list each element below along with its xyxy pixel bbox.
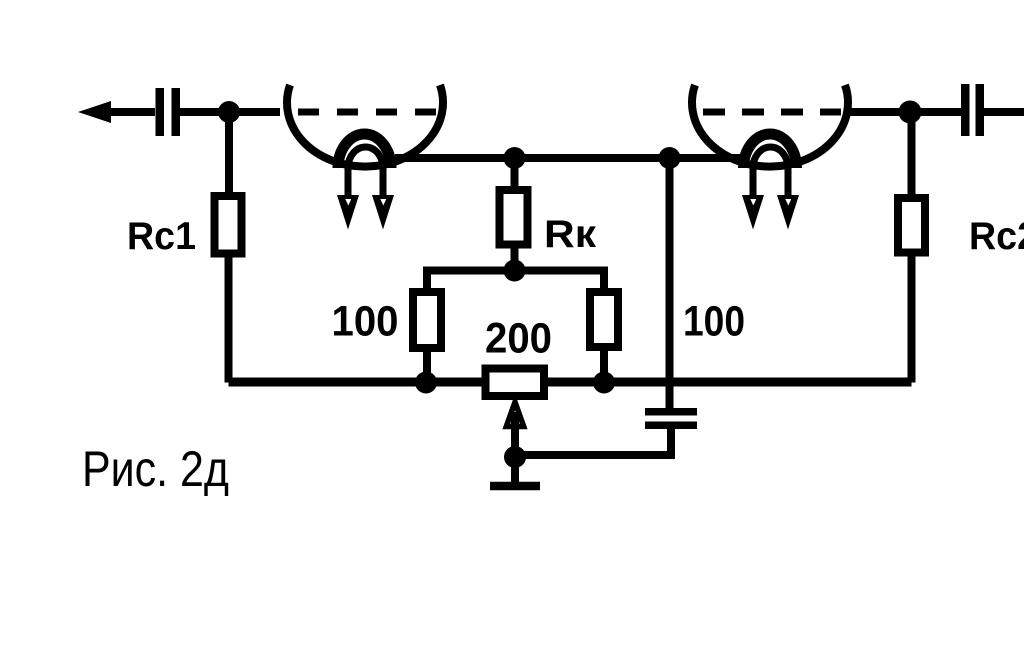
- wire connector node D to both 100 resistors: [427, 271, 604, 289]
- wire right 100 resistor to rail: [600, 351, 608, 383]
- potentiometer wiper arrow: [506, 402, 523, 450]
- resistor 100 (right): [590, 292, 618, 347]
- node G (wiper node): [504, 446, 526, 468]
- tube V1 heater arrowheads: [337, 195, 394, 230]
- node D (bottom of Rk): [504, 260, 526, 282]
- tube V1 cathode: [338, 134, 391, 168]
- capacitor C3 (right coupling cap): [961, 84, 984, 136]
- wire node B down to Rk: [511, 158, 519, 186]
- tube V1 grid (dashed): [298, 109, 436, 116]
- node E (left 100 to rail): [415, 372, 437, 394]
- potentiometer 200 body: [486, 369, 545, 397]
- node H (grid node of V2): [899, 101, 922, 124]
- tube V2 heater: [753, 147, 788, 196]
- svg-text:Rк: Rк: [544, 213, 597, 256]
- wire Rk to node D: [511, 248, 519, 271]
- wire node H to capacitor C3: [910, 108, 961, 116]
- bottom rail wire: [229, 378, 912, 387]
- capacitor C1 (left coupling cap): [156, 88, 181, 136]
- wire tube V2 grid to node H: [848, 108, 910, 116]
- output arrow left terminal: [78, 101, 155, 123]
- ground: [490, 457, 540, 486]
- tube V2 heater arrowheads: [742, 195, 799, 230]
- resistor 100 (left): [413, 292, 441, 348]
- tube V2 cathode: [744, 134, 797, 168]
- cathode rail wire V1 to V2: [395, 154, 740, 162]
- svg-text:100: 100: [332, 298, 399, 346]
- node B (top of Rk): [504, 147, 526, 169]
- wire node C down to capacitor C2: [666, 158, 674, 408]
- svg-text:Рис. 2д: Рис. 2д: [82, 441, 229, 497]
- tube V2 envelope: [692, 85, 848, 167]
- svg-text:Rc2: Rc2: [969, 215, 1024, 258]
- wire node A down to Rc1: [225, 112, 233, 192]
- wire capacitor C3 to right edge: [984, 108, 1024, 116]
- wire Rc1 to bottom rail: [225, 257, 233, 383]
- capacitor C2 (cathode bypass): [645, 408, 697, 429]
- wire node A to tube V1 grid: [229, 108, 280, 116]
- wire wiper node to capacitor C2: [515, 429, 671, 455]
- wire left 100 resistor to rail: [423, 352, 431, 383]
- resistor Rc1: [215, 196, 242, 254]
- wire cap C1 to node A: [180, 108, 229, 116]
- wire node H down to Rc2: [908, 112, 916, 194]
- tube V2 grid (dashed): [703, 109, 841, 116]
- svg-text:100: 100: [683, 298, 745, 346]
- svg-text:Rc1: Rc1: [127, 215, 196, 258]
- node C (cathode rail to decoupling branch): [659, 147, 681, 169]
- node A (grid node of V1): [218, 101, 240, 123]
- node F (right 100 to rail): [593, 372, 615, 394]
- resistor Rc2: [898, 198, 925, 253]
- wire Rc2 to bottom rail: [908, 256, 916, 383]
- svg-text:200: 200: [485, 315, 552, 363]
- tube V1 heater: [348, 147, 383, 196]
- tube V1 envelope: [287, 85, 443, 167]
- resistor Rk: [500, 190, 528, 245]
